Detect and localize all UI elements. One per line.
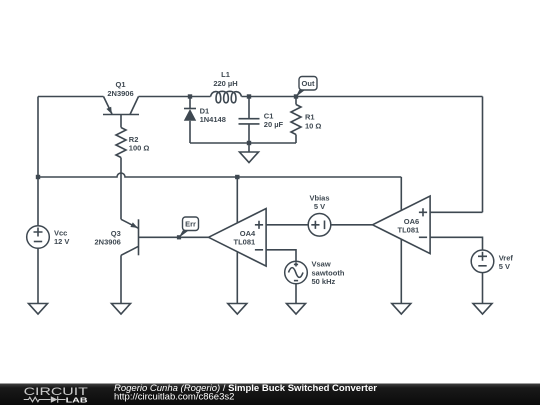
- node dot C1 bottom: [247, 141, 251, 145]
- svg-text:220 µH: 220 µH: [213, 79, 237, 88]
- svg-text:20 µF: 20 µF: [264, 120, 284, 129]
- svg-text:L1: L1: [221, 70, 230, 79]
- source Vbias: [308, 193, 331, 236]
- svg-text:LAB: LAB: [66, 396, 88, 404]
- resistor R1: [291, 97, 321, 144]
- transistor Q1: [103, 80, 139, 127]
- svg-text:TL081: TL081: [234, 237, 256, 246]
- svg-text:TL081: TL081: [398, 225, 420, 234]
- ground under C1: [240, 143, 259, 163]
- svg-text:100 Ω: 100 Ω: [129, 144, 150, 153]
- transistor Q3: [95, 219, 139, 303]
- svg-text:Vsaw: Vsaw: [312, 259, 331, 268]
- wire right feedback rail: [482, 97, 484, 213]
- ground under Q3: [112, 304, 131, 315]
- svg-text:12 V: 12 V: [54, 237, 69, 246]
- ground under Vref: [473, 304, 492, 315]
- wire Vbias to OA6 output: [331, 224, 373, 226]
- svg-text:2N3906: 2N3906: [107, 89, 133, 98]
- resistor R2: [116, 128, 149, 220]
- footer credit line: [114, 383, 377, 402]
- node dot C1/rail: [247, 94, 251, 98]
- ground under OA6: [392, 304, 411, 315]
- svg-text:2N3906: 2N3906: [95, 238, 121, 247]
- svg-text:1N4148: 1N4148: [200, 115, 226, 124]
- wire top rail left segment: [38, 96, 104, 98]
- ground under OA4: [228, 304, 247, 315]
- inductor L1: [211, 70, 242, 103]
- svg-text:5 V: 5 V: [499, 262, 510, 271]
- source Vref: [471, 250, 513, 304]
- footer logo CIRCUIT: [24, 385, 89, 397]
- node dot Out/R1/rail: [294, 94, 298, 98]
- diode D1: [184, 97, 226, 144]
- capacitor C1: [239, 97, 284, 144]
- wire left vcc vertical bottom: [37, 248, 39, 303]
- node dot D1/rail: [188, 94, 192, 98]
- flag Err: [179, 217, 199, 238]
- wire Q3 base to OA4: [139, 236, 209, 238]
- node dot OA4 V+ on 12V rail: [235, 175, 239, 179]
- wire OA4 +in to Vbias: [266, 224, 308, 226]
- svg-text:Err: Err: [185, 220, 196, 229]
- wire 12V rail with hop: [38, 173, 401, 177]
- wire OA4 -in to Vsaw: [266, 250, 296, 261]
- svg-text:http://circuitlab.com/c86e3s2: http://circuitlab.com/c86e3s2: [114, 392, 234, 403]
- source Vsaw: [285, 259, 345, 303]
- svg-text:Out: Out: [302, 79, 315, 88]
- wire left vcc vertical top: [37, 97, 39, 226]
- wire OA6 -in to Vref: [430, 237, 482, 250]
- node dot Err: [177, 235, 181, 239]
- footer logo LAB: [66, 396, 88, 404]
- wire top rail middle segment: [139, 96, 211, 98]
- ground under Vcc: [29, 304, 48, 315]
- node dot Vcc/12V rail: [36, 175, 40, 179]
- wire bottom LC rail: [190, 142, 296, 144]
- footer logo schematic glyph: [24, 396, 66, 402]
- ground under Vsaw: [287, 304, 306, 315]
- source Vcc: [27, 226, 70, 249]
- svg-text:sawtooth: sawtooth: [312, 268, 345, 277]
- svg-text:10 Ω: 10 Ω: [305, 121, 321, 130]
- svg-text:50 kHz: 50 kHz: [312, 277, 336, 286]
- flag Out: [296, 77, 317, 98]
- wire OA6 +in to feedback rail: [430, 211, 482, 213]
- op-amp OA4: [209, 177, 267, 304]
- op-amp OA6: [373, 177, 431, 304]
- svg-text:5 V: 5 V: [314, 202, 325, 211]
- wire top rail right segment: [242, 96, 483, 98]
